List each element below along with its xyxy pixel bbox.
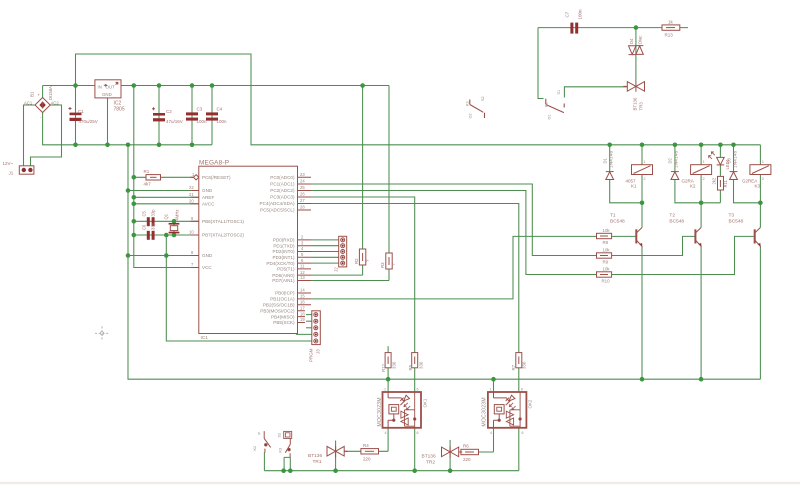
svg-text:21: 21 [189, 192, 194, 197]
svg-text:2: 2 [762, 177, 764, 181]
svg-text:PB7(XTAL2/TOSC2): PB7(XTAL2/TOSC2) [202, 233, 244, 238]
svg-text:PB3(MOSI/OC2): PB3(MOSI/OC2) [260, 308, 295, 313]
svg-text:PB2(SS/OC1B): PB2(SS/OC1B) [263, 303, 295, 308]
svg-text:J1: J1 [9, 171, 14, 176]
svg-text:B1: B1 [30, 91, 35, 97]
svg-text:O1: O1 [548, 114, 552, 119]
svg-text:R1: R1 [144, 169, 150, 174]
svg-text:28: 28 [300, 205, 305, 210]
svg-text:6: 6 [417, 431, 419, 435]
svg-text:15: 15 [300, 294, 305, 299]
svg-text:R5: R5 [408, 364, 413, 370]
svg-text:D2: D2 [668, 157, 673, 163]
svg-text:47u/16V: 47u/16V [166, 119, 183, 124]
svg-text:C7: C7 [565, 11, 570, 17]
svg-text:K2: K2 [690, 184, 696, 189]
svg-text:O2: O2 [469, 113, 473, 118]
svg-text:R10: R10 [602, 278, 611, 283]
svg-text:330: 330 [522, 361, 527, 369]
svg-text:1N4148: 1N4148 [609, 150, 614, 168]
svg-text:10k: 10k [603, 247, 611, 252]
svg-text:C1: C1 [78, 109, 84, 114]
svg-text:BT136: BT136 [308, 453, 322, 459]
svg-text:GND: GND [202, 188, 213, 193]
svg-text:R11: R11 [723, 179, 728, 187]
svg-text:TR3: TR3 [639, 102, 644, 111]
svg-text:10: 10 [189, 230, 194, 235]
svg-text:470u/25V: 470u/25V [79, 119, 98, 124]
svg-text:PD2(INT0): PD2(INT0) [273, 249, 295, 254]
svg-text:T1: T1 [610, 212, 616, 218]
svg-text:220: 220 [463, 457, 471, 462]
svg-text:PC2(ADC2): PC2(ADC2) [270, 188, 295, 193]
svg-text:1: 1 [644, 160, 646, 164]
svg-text:R12: R12 [381, 363, 386, 372]
svg-text:K3: K3 [466, 101, 470, 106]
svg-text:16: 16 [300, 300, 305, 305]
svg-text:PD7(AIN1): PD7(AIN1) [272, 278, 295, 283]
svg-text:PB0(ICP): PB0(ICP) [275, 291, 295, 296]
svg-text:1: 1 [384, 388, 386, 392]
svg-text:PD1(TXD): PD1(TXD) [273, 243, 295, 248]
svg-text:33p: 33p [151, 222, 156, 230]
svg-text:7805: 7805 [114, 107, 125, 113]
svg-text:K1: K1 [545, 102, 549, 107]
svg-text:BC548: BC548 [729, 219, 744, 225]
svg-text:R7: R7 [511, 364, 516, 370]
svg-text:PC6(/RESET): PC6(/RESET) [202, 175, 231, 180]
svg-text:220: 220 [363, 456, 371, 461]
svg-text:R6: R6 [463, 444, 469, 449]
svg-text:K3: K3 [755, 184, 761, 189]
svg-text:26: 26 [300, 192, 305, 197]
svg-text:100n: 100n [217, 119, 228, 124]
svg-text:17: 17 [300, 305, 305, 310]
svg-text:DI158A: DI158A [48, 86, 53, 100]
svg-text:BC548: BC548 [610, 219, 625, 225]
svg-text:2: 2 [644, 177, 646, 181]
svg-text:PC1(ADC1): PC1(ADC1) [270, 182, 295, 187]
svg-text:4: 4 [490, 431, 492, 435]
svg-text:J2: J2 [334, 267, 339, 272]
svg-text:10k: 10k [603, 228, 611, 233]
svg-text:D4: D4 [629, 38, 634, 44]
svg-text:T2: T2 [669, 212, 675, 218]
svg-text:1: 1 [703, 160, 705, 164]
svg-text:PD4(XCK/T0): PD4(XCK/T0) [266, 261, 295, 266]
svg-text:12V~: 12V~ [3, 161, 14, 166]
svg-text:GND: GND [202, 253, 213, 258]
svg-text:PC4(ADC4/SDA): PC4(ADC4/SDA) [260, 201, 295, 206]
svg-text:1k: 1k [668, 19, 674, 24]
svg-text:PD0(RXD): PD0(RXD) [273, 238, 295, 243]
svg-text:27: 27 [300, 198, 305, 203]
svg-text:PD6(AIN0): PD6(AIN0) [272, 273, 295, 278]
svg-text:2: 2 [703, 177, 705, 181]
svg-text:1: 1 [762, 160, 764, 164]
svg-text:100n: 100n [197, 119, 208, 124]
svg-text:4: 4 [385, 431, 387, 435]
svg-text:S2: S2 [481, 96, 485, 101]
svg-text:23: 23 [300, 172, 305, 177]
svg-text:2k2: 2k2 [712, 177, 717, 184]
svg-text:C3: C3 [197, 107, 203, 112]
svg-text:S1: S1 [557, 90, 561, 95]
svg-text:18: 18 [300, 311, 305, 316]
svg-text:6: 6 [521, 388, 523, 392]
svg-text:C5: C5 [142, 210, 147, 216]
svg-text:AREF: AREF [202, 195, 214, 200]
svg-text:BC548: BC548 [669, 219, 684, 225]
svg-text:13: 13 [300, 275, 305, 280]
svg-text:J3: J3 [316, 349, 321, 354]
svg-text:22: 22 [189, 185, 194, 190]
svg-text:Diac: Diac [638, 36, 643, 44]
svg-text:11: 11 [300, 264, 305, 269]
svg-text:C4: C4 [217, 107, 223, 112]
svg-text:330: 330 [392, 361, 397, 369]
svg-text:14: 14 [300, 288, 305, 293]
svg-text:PD5(T1): PD5(T1) [277, 267, 295, 272]
svg-text:6: 6 [522, 431, 524, 435]
svg-text:6: 6 [417, 388, 419, 392]
svg-text:C6: C6 [142, 224, 147, 230]
svg-text:T3: T3 [729, 212, 735, 218]
svg-text:R2: R2 [354, 258, 359, 264]
svg-text:G2RA: G2RA [682, 178, 694, 183]
svg-text:MEGA8-P: MEGA8-P [199, 159, 229, 166]
svg-text:4k7: 4k7 [144, 182, 152, 187]
svg-text:G2REA: G2REA [742, 178, 757, 183]
svg-text:1N4148: 1N4148 [674, 150, 679, 168]
svg-text:IC1: IC1 [201, 335, 209, 341]
svg-text:25: 25 [300, 185, 305, 190]
svg-text:PC0(ADC0): PC0(ADC0) [270, 175, 295, 180]
svg-text:PB5(SCK): PB5(SCK) [273, 320, 295, 325]
svg-text:OK1: OK1 [423, 398, 428, 407]
svg-text:BT136: BT136 [633, 97, 638, 110]
svg-text:1N4148: 1N4148 [732, 150, 737, 168]
svg-text:TR2: TR2 [426, 460, 435, 466]
svg-text:33p: 33p [151, 209, 156, 217]
svg-text:PRGM: PRGM [309, 348, 314, 362]
svg-text:R13: R13 [665, 33, 674, 38]
svg-text:TR1: TR1 [313, 459, 322, 465]
svg-text:PB6(XTAL1/TOSC1): PB6(XTAL1/TOSC1) [202, 219, 244, 224]
svg-text:Q1: Q1 [164, 213, 169, 219]
svg-text:PB4(MISO): PB4(MISO) [271, 314, 295, 319]
svg-text:K3: K3 [279, 448, 283, 453]
svg-text:OUT: OUT [106, 85, 116, 90]
svg-text:4MHz: 4MHz [175, 210, 180, 221]
svg-text:K1: K1 [631, 184, 637, 189]
svg-text:R9: R9 [603, 259, 609, 264]
svg-text:R8: R8 [603, 240, 609, 245]
svg-text:24: 24 [300, 179, 305, 184]
svg-text:K2: K2 [253, 446, 257, 451]
svg-text:D1: D1 [603, 157, 608, 163]
svg-text:OK2: OK2 [528, 399, 533, 408]
svg-text:VCC: VCC [202, 265, 212, 270]
svg-text:PB1(OC1A): PB1(OC1A) [270, 297, 295, 302]
svg-text:R3: R3 [380, 262, 385, 268]
svg-text:PD3(INT1): PD3(INT1) [273, 255, 295, 260]
svg-text:R4: R4 [363, 443, 369, 448]
svg-text:C2: C2 [166, 109, 172, 114]
svg-text:PC5(ADC5/SCL): PC5(ADC5/SCL) [260, 208, 295, 213]
svg-text:GND: GND [102, 92, 112, 97]
svg-text:1: 1 [490, 388, 492, 392]
svg-text:MOC3023M: MOC3023M [377, 397, 383, 426]
svg-text:10k: 10k [603, 266, 611, 271]
svg-text:AC1: AC1 [24, 100, 33, 105]
svg-text:19: 19 [300, 317, 305, 322]
svg-text:AC2: AC2 [51, 100, 60, 105]
svg-text:S2: S2 [278, 433, 282, 438]
svg-text:+: + [38, 93, 41, 98]
svg-text:MOC3023M: MOC3023M [482, 397, 488, 426]
svg-text:4057: 4057 [626, 178, 637, 183]
svg-text:20: 20 [189, 199, 194, 204]
svg-text:AVCC: AVCC [202, 202, 215, 207]
svg-text:100n: 100n [578, 9, 583, 20]
svg-text:LED1: LED1 [725, 158, 730, 169]
svg-text:330: 330 [418, 361, 423, 369]
svg-text:PC3(ADC3): PC3(ADC3) [270, 195, 295, 200]
svg-text:12: 12 [300, 270, 305, 275]
svg-text:BT136: BT136 [422, 454, 436, 460]
svg-text:IN: IN [98, 85, 102, 90]
